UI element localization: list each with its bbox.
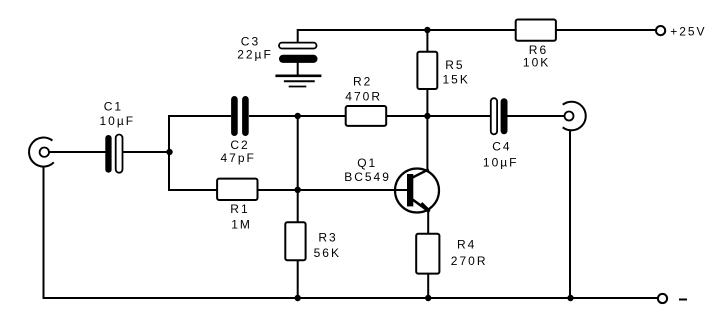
svg-text:56K: 56K <box>314 246 341 260</box>
svg-text:10K: 10K <box>523 56 550 70</box>
svg-text:470R: 470R <box>345 90 382 104</box>
svg-text:Q1: Q1 <box>357 156 377 170</box>
svg-text:BC549: BC549 <box>344 170 391 184</box>
svg-text:270R: 270R <box>451 254 488 268</box>
svg-text:R5: R5 <box>445 58 464 72</box>
svg-text:10µF: 10µF <box>100 114 136 128</box>
svg-text:22µF: 22µF <box>237 47 273 61</box>
svg-text:R4: R4 <box>457 238 476 252</box>
svg-text:R3: R3 <box>318 230 337 244</box>
svg-text:R1: R1 <box>230 202 249 216</box>
svg-text:15K: 15K <box>443 72 470 86</box>
svg-text:C2: C2 <box>230 138 249 152</box>
svg-text:10µF: 10µF <box>483 156 519 170</box>
svg-text:C1: C1 <box>104 100 123 114</box>
svg-text:47pF: 47pF <box>221 151 256 165</box>
svg-text:+25V: +25V <box>670 25 706 39</box>
svg-text:C4: C4 <box>492 140 511 154</box>
svg-text:R2: R2 <box>353 74 372 88</box>
svg-text:1M: 1M <box>231 217 252 231</box>
